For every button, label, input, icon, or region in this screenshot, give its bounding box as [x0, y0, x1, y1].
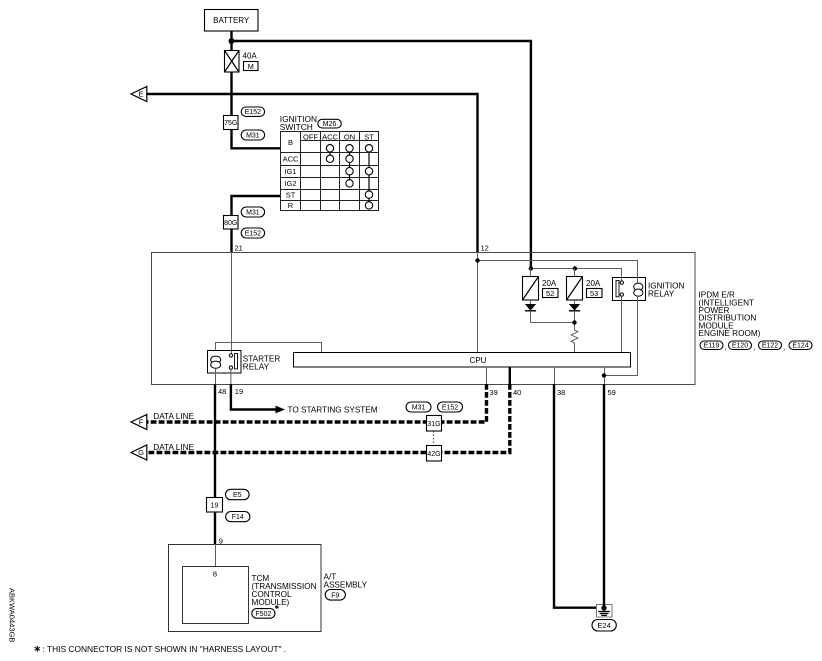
pin label 8: [213, 570, 217, 579]
svg-text:40: 40: [513, 388, 521, 397]
switch contacts row ACC: [326, 155, 353, 162]
connector oval M31 (top): [241, 130, 264, 140]
arrow G (data line): [131, 445, 147, 460]
diode D53: [569, 300, 580, 330]
label A/T ASSEMBLY: [324, 572, 368, 589]
svg-text:M31: M31: [246, 210, 260, 217]
junction fuse 52 supply: [529, 266, 533, 270]
svg-text:E124: E124: [792, 343, 808, 350]
wire TCM pin 8: [215, 544, 217, 567]
wire pin 38 to ground: [554, 384, 596, 608]
switch contacts row IG1: [346, 168, 373, 175]
arrow to starting system: [276, 406, 286, 414]
svg-text:31G: 31G: [427, 421, 440, 428]
svg-text:E152: E152: [245, 109, 261, 116]
svg-text:12: 12: [481, 243, 489, 252]
svg-text:OFF: OFF: [303, 132, 318, 141]
svg-text:80G: 80G: [224, 220, 237, 227]
svg-text:20A: 20A: [542, 279, 557, 288]
connector oval F9: [325, 590, 345, 601]
svg-text:IG2: IG2: [284, 179, 296, 188]
connector 19: [207, 498, 223, 513]
wire starter relay contact to pin 19: [230, 369, 232, 384]
battery: [205, 10, 259, 32]
svg-text:53: 53: [590, 289, 598, 298]
svg-text:M31: M31: [412, 405, 426, 412]
svg-text:20A: 20A: [586, 279, 601, 288]
svg-text:F: F: [139, 418, 144, 427]
svg-text:,: ,: [753, 343, 755, 352]
svg-text:B: B: [288, 138, 293, 147]
pin label 21: [235, 243, 243, 252]
connector oval E152 (top): [241, 107, 264, 116]
connector 42G: [427, 446, 442, 462]
svg-text:F502: F502: [255, 611, 271, 618]
junction battery feed: [229, 38, 235, 44]
svg-text:E119: E119: [704, 343, 720, 350]
diode D52: [525, 300, 536, 323]
svg-text:ENGINE ROOM): ENGINE ROOM): [699, 329, 761, 338]
svg-text:21: 21: [235, 243, 243, 252]
svg-text:F14: F14: [232, 514, 244, 521]
switch contact row R: [365, 202, 372, 209]
switch contact link ACC column: [329, 148, 331, 159]
svg-text:F9: F9: [331, 592, 339, 599]
svg-text:42G: 42G: [427, 451, 440, 458]
label TO STARTING SYSTEM: [288, 405, 378, 414]
svg-text:ACC: ACC: [322, 132, 338, 141]
pin label 38: [557, 388, 565, 397]
label 52 box: [543, 289, 559, 299]
wire pin 19 to starting system: [231, 384, 276, 410]
wire to fuse 53: [574, 269, 576, 277]
wire battery to fusible link: [230, 31, 232, 50]
connector oval F14: [226, 512, 250, 522]
connector oval E120: [729, 341, 756, 352]
label IGNITION SWITCH: [280, 114, 317, 132]
label 40A: [243, 52, 258, 61]
svg-text:,: ,: [784, 343, 786, 352]
svg-text:19: 19: [211, 503, 219, 510]
watermark ABKWA0443GB: [8, 588, 17, 642]
wire ignition relay coil to pin 59 node: [604, 301, 638, 376]
data line G (pin 40): [147, 384, 510, 453]
connector oval E119: [700, 341, 726, 352]
junction fuse 53 supply: [573, 266, 577, 270]
wire ignition relay contact to CPU: [621, 296, 623, 352]
svg-text:: THIS CONNECTOR IS NOT SHOWN: : THIS CONNECTOR IS NOT SHOWN IN "HARNES…: [43, 644, 287, 654]
wire connector 19 to TCM: [214, 512, 216, 544]
label 20A (52): [542, 279, 557, 288]
pin label 40: [513, 388, 521, 397]
svg-text:CPU: CPU: [470, 356, 487, 365]
arrow F (data line): [131, 415, 147, 430]
label TCM: [252, 574, 317, 607]
starter relay: [208, 351, 242, 374]
wire pin 21 to starter relay contact: [231, 252, 233, 354]
dotted link 31G to 42G: [433, 431, 435, 446]
svg-text:E: E: [138, 90, 143, 99]
wire CPU to pin 39: [486, 367, 488, 384]
junction pin 12 branch: [475, 258, 479, 262]
junction pin 59 / relay coil: [602, 373, 606, 377]
svg-text:E152: E152: [245, 231, 261, 238]
wire fusible link down to ignition switch B: [232, 72, 281, 148]
svg-text:RELAY: RELAY: [648, 289, 675, 298]
connector oval E24: [592, 620, 616, 632]
svg-text:ASSEMBLY: ASSEMBLY: [324, 580, 368, 589]
fuse 53 20A: [567, 277, 583, 301]
svg-text:E120: E120: [732, 343, 748, 350]
pin label 48: [218, 387, 226, 396]
svg-text:59: 59: [608, 388, 616, 397]
connector oval M31 (80G): [241, 207, 264, 217]
switch contact link ON column: [349, 148, 351, 183]
label IGNITION RELAY: [648, 281, 684, 298]
resistor (CPU sense): [571, 330, 578, 353]
svg-text:BATTERY: BATTERY: [213, 16, 250, 25]
wire branch to ignition relay coil: [478, 261, 638, 278]
ignition relay: [613, 277, 646, 301]
fuse 52 20A: [523, 277, 539, 301]
label IPDM E/R block: [699, 291, 761, 339]
connector oval E152 (data line): [438, 402, 463, 412]
svg-text:TO STARTING SYSTEM: TO STARTING SYSTEM: [288, 405, 378, 414]
svg-text:E122: E122: [762, 343, 778, 350]
svg-text:M26: M26: [323, 121, 337, 128]
connector oval E122: [759, 341, 786, 352]
wire diode D52 to node: [531, 322, 575, 324]
switch contact row ST: [365, 191, 372, 198]
wire ignition switch ST to IPDM pin 21: [232, 196, 281, 252]
switch contacts row B: [326, 145, 372, 152]
switch contact link ST column: [368, 148, 370, 205]
svg-text:8: 8: [213, 570, 217, 579]
wire fuse supply bus: [531, 269, 622, 282]
connector oval F502: [252, 609, 275, 619]
svg-text:E24: E24: [597, 621, 610, 630]
wire CPU to starter relay coil: [216, 343, 322, 353]
svg-text:DATA LINE: DATA LINE: [153, 412, 194, 421]
ignition switch table: [281, 132, 379, 211]
footnote: [43, 644, 287, 654]
connector oval M26: [318, 119, 342, 128]
wire page-E feed to IPDM pin 12: [147, 94, 478, 252]
pin label 19: [235, 387, 243, 396]
connector 75G: [224, 116, 239, 130]
label DATA LINE (G): [153, 443, 194, 452]
label STARTER RELAY: [243, 354, 281, 371]
pin label 39: [490, 388, 498, 397]
connector oval E152 (80G): [241, 228, 264, 238]
arrow E (to page E): [131, 87, 147, 102]
svg-text:IG1: IG1: [284, 167, 296, 176]
ground connector E24: [597, 604, 613, 617]
connector 31G: [427, 416, 442, 432]
connector 80G: [224, 216, 239, 230]
svg-text:R: R: [288, 201, 294, 210]
svg-text:SWITCH: SWITCH: [280, 122, 313, 132]
connector oval M31 (data line): [406, 402, 431, 412]
pin label 59: [608, 388, 616, 397]
label 20A (53): [586, 279, 601, 288]
wire starter relay coil to pin 48: [215, 368, 217, 384]
svg-text:MODULE): MODULE): [252, 598, 290, 607]
wire battery feed to IPDM fuse supply: [232, 41, 531, 268]
svg-text:ST: ST: [286, 190, 296, 199]
svg-text:52: 52: [546, 289, 554, 298]
svg-text:19: 19: [235, 387, 243, 396]
pin label 9: [219, 536, 223, 545]
switch contact row IG2: [346, 180, 353, 187]
CPU box: [294, 353, 631, 368]
svg-text:RELAY: RELAY: [243, 362, 270, 371]
footnote asterisk: [35, 646, 40, 652]
wire CPU to pin 59: [604, 367, 606, 384]
pin label 12: [481, 243, 489, 252]
svg-text:40A: 40A: [243, 52, 258, 61]
IPDM E/R box: [152, 253, 696, 385]
TCM connector box: [183, 567, 249, 624]
asterisk (F502): [275, 605, 279, 609]
svg-text:39: 39: [490, 388, 498, 397]
svg-text:ST: ST: [364, 132, 374, 141]
wire to fuse 52: [530, 269, 532, 277]
label DATA LINE (F): [153, 412, 194, 421]
svg-text:,: ,: [724, 343, 726, 352]
label 53 box: [587, 289, 603, 299]
svg-text:E152: E152: [442, 405, 458, 412]
junction diode node: [572, 320, 576, 324]
svg-text:G: G: [138, 448, 144, 457]
svg-text:M: M: [248, 62, 254, 71]
connector oval E124: [789, 341, 812, 350]
wire pin 48 down to connector 19: [214, 384, 216, 498]
svg-text:DATA LINE: DATA LINE: [153, 443, 194, 452]
data line F (pin 39): [147, 384, 487, 422]
A/T assembly box: [169, 545, 322, 632]
fusible link 40A: [225, 51, 240, 73]
wire CPU to pin 40: [509, 367, 511, 384]
wire CPU to pin 38: [554, 367, 556, 384]
wire pin 12 to CPU: [477, 252, 479, 352]
label M box: [244, 62, 259, 71]
connector oval E5: [226, 489, 250, 499]
svg-text:E5: E5: [233, 492, 242, 499]
wire pin 59 to ground: [603, 384, 605, 608]
svg-text:75G: 75G: [224, 120, 237, 127]
svg-text:38: 38: [557, 388, 565, 397]
svg-text:ABKWA0443GB: ABKWA0443GB: [8, 588, 17, 642]
svg-text:M31: M31: [246, 133, 260, 140]
svg-text:48: 48: [218, 387, 226, 396]
svg-text:ACC: ACC: [283, 155, 299, 164]
svg-text:ON: ON: [344, 132, 355, 141]
